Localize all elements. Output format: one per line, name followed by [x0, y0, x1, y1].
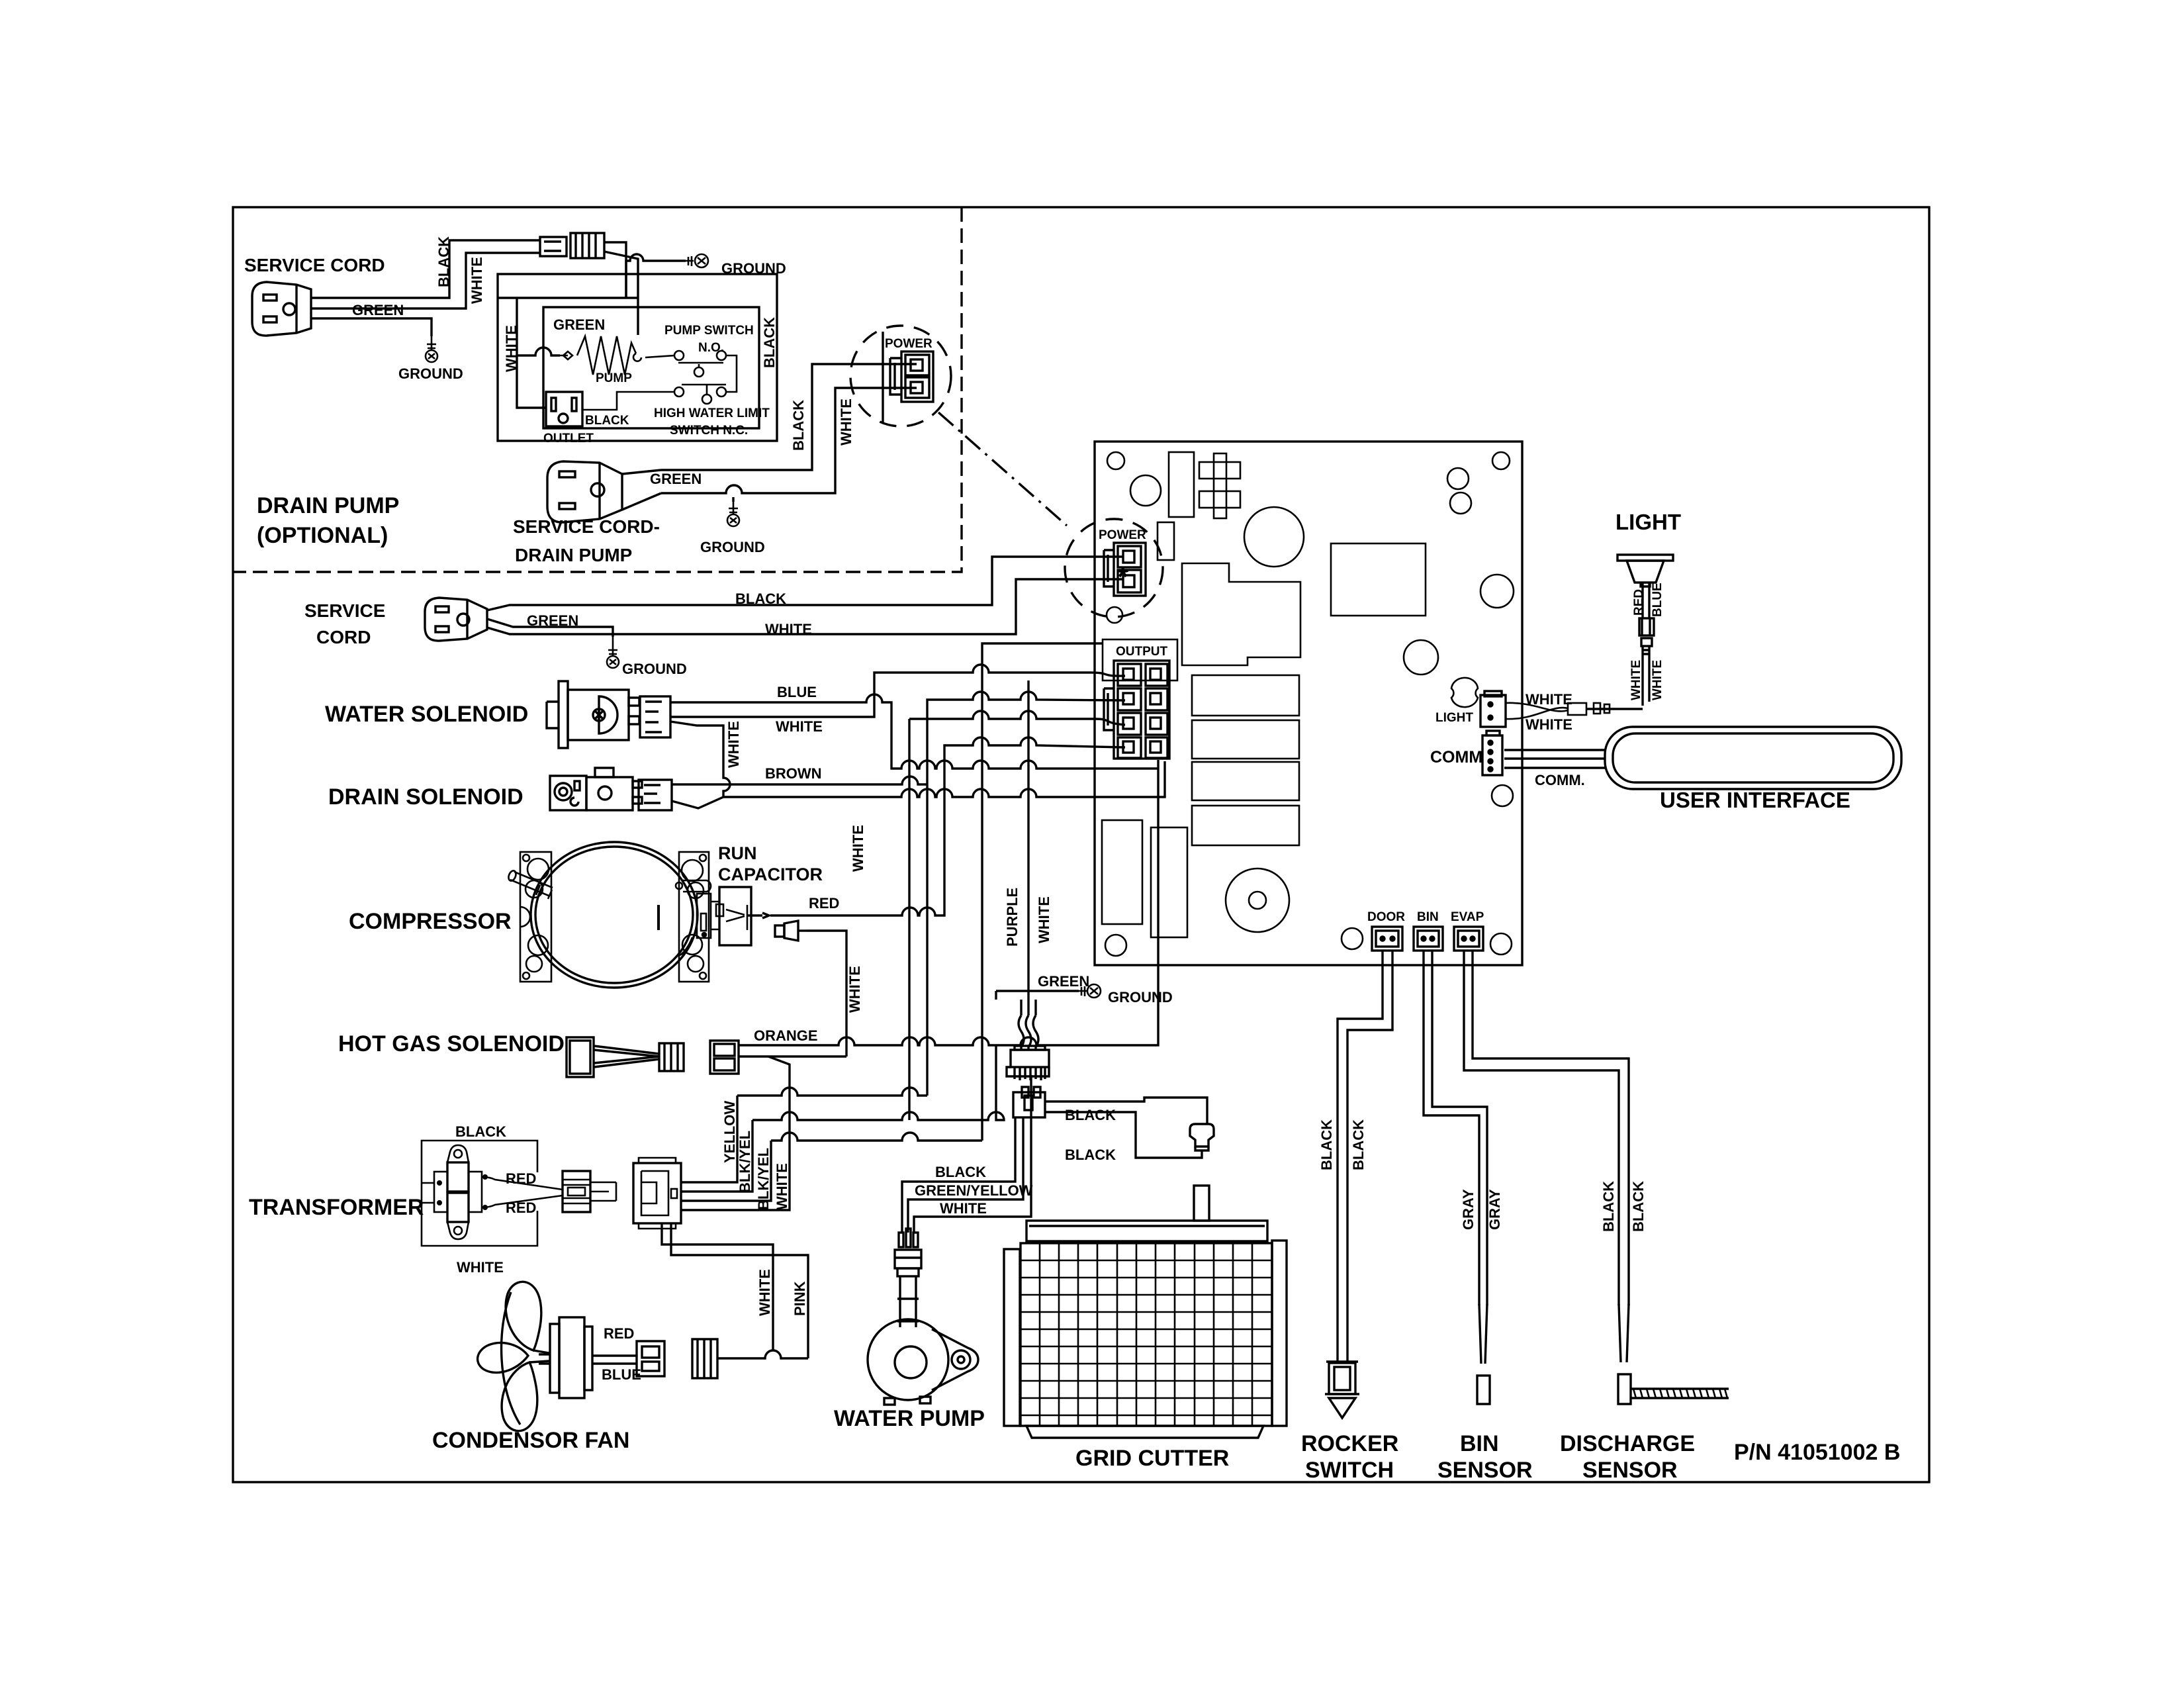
pump box inner rectangle: [543, 307, 759, 428]
svg-text:BLUE: BLUE: [777, 684, 817, 700]
svg-text:HIGH WATER LIMIT: HIGH WATER LIMIT: [654, 406, 770, 420]
svg-text:GROUND: GROUND: [398, 365, 463, 382]
compressor left mount: [520, 852, 551, 982]
svg-text:GROUND: GROUND: [1108, 989, 1173, 1006]
svg-text:POWER: POWER: [1099, 528, 1146, 542]
LIGHT connector (board): [1480, 691, 1506, 727]
wire yellow run1: [737, 1088, 927, 1096]
svg-text:DRAIN SOLENOID: DRAIN SOLENOID: [328, 784, 523, 810]
wire drain solenoid lower white: [672, 797, 723, 808]
svg-text:BLACK: BLACK: [935, 1164, 986, 1180]
compressor suction tube: [676, 880, 711, 892]
water pump tube and connector: [895, 1229, 921, 1327]
board circle right mid: [1480, 575, 1514, 608]
wire blk/yel run3: [771, 1133, 982, 1141]
svg-text:WHITE: WHITE: [1629, 660, 1643, 700]
svg-text:DOOR: DOOR: [1367, 910, 1405, 924]
grid cutter base tray: [1026, 1426, 1263, 1438]
svg-text:BLACK: BLACK: [790, 400, 807, 451]
svg-text:WHITE: WHITE: [765, 621, 812, 637]
wire red: run capacitor to output: [770, 737, 1125, 915]
svg-text:LIGHT: LIGHT: [1615, 510, 1681, 534]
wire cord1 white: [311, 253, 540, 308]
light fixture: [1617, 555, 1673, 586]
fan connector A: [637, 1341, 664, 1376]
svg-text:YELLOW: YELLOW: [721, 1101, 738, 1163]
svg-text:GREEN: GREEN: [650, 471, 702, 487]
grid cutter left plate: [1004, 1249, 1020, 1426]
wire blue: water solenoid to output: [670, 665, 1125, 717]
board screw hole bottom-left: [1105, 935, 1126, 956]
wire door switch 2: [1347, 951, 1392, 1362]
spade connector (compressor white wire): [775, 921, 806, 941]
wire drain cord white to power (hump over green drop): [661, 388, 917, 493]
svg-text:GROUND: GROUND: [622, 661, 687, 677]
wire hot gas lower: [739, 1055, 846, 1057]
condensor fan motor: [539, 1317, 637, 1398]
light inline terminals: [1594, 703, 1600, 714]
svg-text:WHITE: WHITE: [1525, 691, 1572, 708]
board big rect right: [1331, 543, 1426, 616]
relay rect 1: [1192, 675, 1299, 716]
svg-text:RED: RED: [809, 895, 839, 912]
svg-text:BLK/YEL: BLK/YEL: [755, 1148, 772, 1210]
svg-text:WATER PUMP: WATER PUMP: [834, 1406, 985, 1431]
svg-text:CAPACITOR: CAPACITOR: [718, 865, 823, 884]
svg-text:GRAY: GRAY: [1486, 1189, 1503, 1230]
svg-text:PURPLE: PURPLE: [1004, 888, 1021, 947]
svg-text:RED: RED: [1632, 589, 1646, 616]
wire blk/yel vertical 2: [681, 1141, 771, 1201]
compressor body: [531, 842, 698, 988]
transformer big connector: [633, 1158, 681, 1229]
ground symbol (cord 1): [426, 336, 437, 362]
hot gas solenoid symbol: [567, 1037, 739, 1077]
svg-text:HOT GAS SOLENOID: HOT GAS SOLENOID: [338, 1031, 565, 1056]
light twisted pair to board connector: [1506, 703, 1568, 719]
wire to ground (pump box top) with hump: [626, 254, 686, 298]
svg-text:WHITE: WHITE: [776, 718, 823, 735]
BIN connector: [1414, 927, 1443, 951]
drain pump optional section dashed boundary: [233, 207, 962, 572]
wire water pump 2 (green/yellow): [908, 1117, 1023, 1233]
svg-text:WHITE: WHITE: [1036, 896, 1052, 943]
svg-text:SENSOR: SENSOR: [1437, 1458, 1533, 1483]
svg-text:BLACK: BLACK: [1630, 1181, 1647, 1232]
drain solenoid symbol: [550, 768, 672, 810]
pump box outer rectangle: [498, 274, 777, 441]
svg-text:BIN: BIN: [1417, 910, 1439, 924]
control board outline: [1095, 442, 1522, 965]
wire comm 3x to user interface: [1504, 750, 1605, 768]
wire white: compressor spade down to hot gas line: [806, 931, 846, 1056]
svg-text:ORANGE: ORANGE: [754, 1027, 818, 1044]
transformer primary leads: [422, 1183, 434, 1203]
svg-text:OUTLET: OUTLET: [543, 432, 594, 445]
wire yellow vertical: [681, 1096, 737, 1182]
wire main cord black: [487, 557, 1123, 610]
wire connector to pump box (line 2): [604, 252, 638, 335]
wire fan connector to pink: [717, 1350, 808, 1358]
transformer secondary leads to red pair: [482, 1177, 563, 1207]
svg-text:OUTPUT: OUTPUT: [1116, 645, 1168, 659]
ground symbol (main cord): [607, 637, 619, 668]
svg-text:WHITE: WHITE: [756, 1269, 773, 1316]
svg-text:WHITE: WHITE: [940, 1200, 987, 1217]
service cord plug 3 (main): [425, 598, 487, 641]
wire bin sensor 1: [1424, 951, 1479, 1305]
POWER connector (board): [1104, 543, 1146, 596]
OUTPUT connector box outline: [1103, 639, 1177, 680]
grid cutter pipe: [1194, 1186, 1209, 1221]
dashed circle around drain pump power: [850, 326, 951, 426]
board hole below power: [1107, 607, 1122, 623]
svg-text:BLACK: BLACK: [1065, 1107, 1116, 1123]
svg-text:WHITE: WHITE: [838, 399, 854, 445]
wire white water solenoid: [670, 694, 1158, 769]
board tall rect bottom-left 2: [1151, 827, 1187, 937]
buzzer outer: [1226, 868, 1289, 932]
svg-text:WHITE: WHITE: [1651, 660, 1664, 700]
wire water pump 1 (black): [902, 1117, 1015, 1233]
svg-text:COMM.: COMM.: [1535, 772, 1585, 788]
svg-text:(OPTIONAL): (OPTIONAL): [257, 523, 388, 548]
outlet symbol: [546, 392, 582, 426]
svg-text:GREEN/YELLOW: GREEN/YELLOW: [915, 1182, 1033, 1199]
buzzer inner: [1249, 892, 1266, 909]
svg-text:CONDENSOR FAN: CONDENSOR FAN: [432, 1428, 629, 1453]
svg-text:GREEN: GREEN: [553, 316, 605, 333]
grid cutter right plate: [1272, 1241, 1287, 1426]
wire white fan vertical: [662, 1223, 773, 1350]
svg-text:SERVICE CORD: SERVICE CORD: [244, 255, 385, 275]
svg-text:GREEN: GREEN: [352, 302, 404, 318]
svg-text:ROCKER: ROCKER: [1301, 1431, 1398, 1456]
svg-text:DRAIN PUMP: DRAIN PUMP: [515, 545, 632, 565]
wire grid cutter black 2: [1045, 1112, 1202, 1158]
svg-text:SWITCH N.C.: SWITCH N.C.: [670, 424, 748, 438]
wire light connector down: [1643, 646, 1649, 706]
water solenoid symbol: [547, 681, 670, 748]
discharge sensor symbol: [1618, 1304, 1729, 1404]
svg-text:BROWN: BROWN: [765, 765, 822, 782]
board component rect top: [1169, 452, 1194, 517]
light inline connector: [1639, 618, 1654, 654]
svg-text:POWER: POWER: [885, 337, 933, 351]
wire door switch 1: [1338, 951, 1383, 1362]
grid cutter connector (2-pin): [1013, 1087, 1045, 1117]
svg-text:COMPRESSOR: COMPRESSOR: [349, 909, 512, 934]
fan connector B: [692, 1339, 717, 1378]
svg-text:*: *: [1117, 561, 1129, 593]
OUTPUT connector (8 pin): [1104, 661, 1169, 759]
board circle center: [1404, 640, 1438, 675]
transformer symbol: [434, 1145, 482, 1239]
svg-text:BLACK: BLACK: [435, 236, 452, 287]
svg-text:WHITE: WHITE: [457, 1259, 504, 1276]
svg-text:BLACK: BLACK: [585, 414, 629, 428]
svg-text:USER INTERFACE: USER INTERFACE: [1660, 788, 1850, 812]
COMM connector (board): [1482, 731, 1502, 775]
board heatsink stepped shape: [1182, 563, 1300, 665]
service cord plug 1 (drain pump section): [252, 282, 311, 336]
wire green drop (drain cord ground): [732, 497, 734, 502]
DOOR connector: [1372, 927, 1402, 951]
page border frame: [233, 207, 1929, 1482]
svg-text:CORD: CORD: [316, 627, 371, 647]
svg-text:SERVICE CORD-: SERVICE CORD-: [513, 516, 660, 537]
svg-text:PINK: PINK: [792, 1281, 808, 1316]
svg-text:GRAY: GRAY: [1460, 1189, 1477, 1230]
relay rect 3: [1192, 762, 1299, 800]
wire light horizontal: [1587, 708, 1643, 710]
svg-text:DRAIN PUMP: DRAIN PUMP: [257, 493, 399, 518]
compressor terminal block: [697, 894, 711, 938]
svg-text:GROUND: GROUND: [700, 539, 765, 555]
svg-text:GREEN: GREEN: [527, 612, 578, 629]
board hole left of door conn: [1342, 928, 1363, 949]
wire pink fan vertical: [671, 1223, 808, 1358]
svg-text:BLACK: BLACK: [1318, 1119, 1335, 1170]
pump coil: [560, 336, 636, 375]
svg-text:BLACK: BLACK: [1600, 1181, 1617, 1232]
grid cutter body: [1021, 1243, 1272, 1426]
condensor fan blades: [478, 1282, 549, 1430]
svg-text:WHITE: WHITE: [774, 1163, 790, 1210]
board small rect near power: [1158, 522, 1174, 560]
wire output row 975: [982, 643, 1103, 1141]
ground symbol (pump box top): [686, 254, 708, 267]
svg-text:DISCHARGE: DISCHARGE: [1560, 1431, 1695, 1456]
svg-text:BLUE: BLUE: [602, 1366, 641, 1383]
pump switch N.O.: [674, 351, 737, 387]
board big circle top: [1244, 507, 1304, 567]
svg-text:P/N 41051002 B: P/N 41051002 B: [1734, 1440, 1900, 1465]
svg-text:TRANSFORMER: TRANSFORMER: [249, 1195, 424, 1220]
board circle c1: [1130, 475, 1161, 506]
svg-text:SWITCH: SWITCH: [1305, 1458, 1394, 1483]
wire blk/yel run2: [752, 1045, 1004, 1120]
relay rect 2: [1192, 720, 1299, 759]
wire hot gas orange to output: [739, 760, 1158, 1045]
compressor right mount: [679, 852, 709, 982]
ground symbol (board green): [1079, 984, 1101, 998]
wire blk/yel vertical 1: [681, 1120, 752, 1192]
svg-text:RED: RED: [604, 1325, 634, 1342]
svg-text:BLACK: BLACK: [735, 590, 786, 607]
svg-text:BLACK: BLACK: [761, 317, 778, 368]
relay rect 4: [1192, 806, 1299, 845]
svg-text:GREEN: GREEN: [1038, 973, 1089, 990]
inline connector pair (cord 1): [540, 233, 604, 258]
svg-text:WATER SOLENOID: WATER SOLENOID: [325, 702, 528, 727]
wire white branch down and row 1204 to wrap: [670, 722, 1165, 797]
wire hot gas stub to white harness: [681, 1056, 790, 1210]
run capacitor: [711, 887, 769, 945]
bin sensor symbol: [1477, 1304, 1490, 1404]
svg-text:COMM: COMM: [1430, 748, 1482, 767]
EVAP connector: [1454, 927, 1483, 951]
wire bin sensor 2: [1432, 951, 1487, 1305]
svg-text:WHITE: WHITE: [469, 257, 485, 304]
wire drain cord black to power: [661, 364, 917, 470]
wire cord1 black: [311, 240, 540, 298]
wire water pump 3 (white): [914, 1075, 1031, 1233]
board circles right top pair: [1447, 468, 1469, 489]
wire green to board ground: [996, 991, 1079, 1015]
wire purple vertical: [1027, 680, 1029, 1015]
wire white trunk vertical: [1034, 1000, 1036, 1015]
grid cutter lamp socket: [1190, 1124, 1214, 1150]
dashed circle around board power: [1065, 519, 1163, 617]
svg-text:SENSOR: SENSOR: [1582, 1458, 1678, 1483]
svg-text:WHITE: WHITE: [1525, 716, 1572, 733]
svg-text:BIN: BIN: [1460, 1431, 1499, 1456]
svg-text:RED: RED: [506, 1170, 536, 1187]
board screw hole top-right: [1492, 452, 1510, 469]
wire cord1 green to ground: [311, 318, 432, 336]
wire light fixture down: [1643, 583, 1649, 618]
wire grid cutter black 1: [1045, 1098, 1207, 1124]
high water limit switch N.C.: [582, 385, 737, 410]
svg-text:BLK/YEL: BLK/YEL: [737, 1131, 753, 1193]
svg-text:EVAP: EVAP: [1451, 910, 1484, 924]
svg-text:PUMP SWITCH: PUMP SWITCH: [664, 324, 754, 338]
svg-text:BLACK: BLACK: [1065, 1147, 1116, 1163]
wire connector to pump box (white): [498, 242, 638, 408]
svg-text:BLUE: BLUE: [1651, 583, 1664, 617]
harness connector (above water pump, multi-pin): [1007, 1046, 1049, 1080]
light bulb blob on board: [1451, 678, 1478, 707]
wire main cord green: [487, 619, 613, 637]
transformer wiring box (black/white loop): [422, 1141, 537, 1246]
wire white riser V1374 to output pin row3: [909, 711, 1125, 1120]
svg-text:PUMP: PUMP: [596, 371, 632, 385]
grid cutter top bar: [1026, 1221, 1267, 1241]
wire pump coil feed: [517, 348, 560, 355]
BOARD: [938, 412, 1522, 965]
board chip component: [1199, 453, 1240, 518]
board screw hole bottom-right: [1490, 933, 1512, 955]
svg-text:SERVICE: SERVICE: [304, 600, 385, 621]
svg-text:RUN: RUN: [718, 843, 757, 863]
svg-text:WHITE: WHITE: [503, 325, 520, 372]
svg-text:GROUND: GROUND: [721, 260, 786, 277]
svg-text:GRID CUTTER: GRID CUTTER: [1075, 1446, 1229, 1471]
wire evap sensor 1: [1464, 951, 1619, 1305]
drain pump POWER connector: [883, 332, 933, 422]
board tall rect bottom-left 1: [1102, 820, 1142, 924]
user interface outline: [1605, 727, 1901, 789]
board screw hole top-left: [1107, 452, 1124, 469]
SYMBOLS: [252, 233, 951, 1431]
dash-dot leader line between power connectors: [938, 412, 1067, 526]
wire brown: drain solenoid to output: [672, 692, 1125, 1096]
rocker switch symbol: [1325, 1362, 1359, 1418]
svg-text:WHITE: WHITE: [725, 721, 742, 768]
svg-text:BLACK: BLACK: [1350, 1119, 1367, 1170]
wire evap sensor 2: [1473, 951, 1629, 1305]
ground symbol (drain pump cord): [727, 502, 739, 526]
transformer inline connector (hatched): [563, 1171, 616, 1212]
board hole below comm: [1492, 785, 1513, 806]
svg-text:LIGHT: LIGHT: [1435, 711, 1473, 725]
svg-text:RED: RED: [506, 1199, 536, 1216]
svg-text:N.O.: N.O.: [698, 341, 724, 355]
wire harness squiggles into connector: [1019, 1015, 1024, 1050]
wire main cord white: [487, 579, 1123, 634]
svg-text:BLACK: BLACK: [455, 1123, 506, 1140]
svg-text:WHITE: WHITE: [850, 825, 866, 872]
service cord plug 2 (drain pump cord): [547, 461, 661, 522]
svg-text:WHITE: WHITE: [846, 966, 863, 1013]
water pump body: [868, 1319, 978, 1405]
compressor tilted pipe: [507, 870, 553, 899]
